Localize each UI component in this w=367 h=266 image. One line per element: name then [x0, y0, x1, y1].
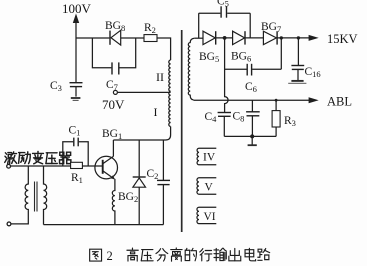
svg-text:I: I: [154, 105, 158, 119]
caption figure 2 (Chinese): [90, 249, 102, 261]
capacitor C5: [221, 6, 226, 17]
junction dot at BG7 output: [280, 36, 283, 39]
wire BG7 output down to C6: [280, 38, 282, 69]
capacitor C2: [157, 140, 170, 225]
winding V: [197, 178, 216, 194]
capacitor C4: [218, 113, 231, 137]
junction dot at C16 branch: [297, 36, 300, 39]
svg-text:ABL: ABL: [327, 95, 352, 109]
svg-text:C5: C5: [217, 0, 229, 9]
svg-text:VI: VI: [204, 211, 216, 223]
capacitor C1 loop: [63, 138, 88, 166]
wire C5 loop top: [199, 12, 251, 14]
wire base rail: [11, 165, 71, 167]
ground below C8 node: [248, 136, 257, 145]
wire BG6 to BG7: [245, 37, 263, 39]
wire R2 to transformer primary top: [157, 38, 171, 60]
wire BG8 to R2: [121, 37, 144, 39]
capacitor C8: [246, 100, 260, 136]
capacitor C6: [247, 64, 251, 76]
arrow 15KV: [309, 35, 319, 41]
wire BG7 to 15KV arrow: [277, 37, 309, 39]
wire main top rail left: [76, 37, 109, 39]
driver transformer right winding: [44, 166, 47, 225]
wire 70V tap to primary: [118, 91, 171, 93]
svg-text:IV: IV: [203, 152, 216, 164]
wire secondary top to BG5: [194, 37, 203, 39]
driver transformer left winding: [11, 166, 28, 224]
svg-text:II: II: [156, 70, 164, 84]
diode BG6: [233, 31, 245, 44]
diode BG5: [203, 31, 216, 44]
svg-text:70V: 70V: [102, 97, 125, 112]
transformer core: [181, 30, 183, 232]
driver transformer core: [35, 182, 38, 212]
transformer secondary winding: [188, 38, 194, 100]
winding VI: [197, 207, 216, 223]
wire C7 snubber loop: [92, 38, 135, 68]
emitter choke: [112, 179, 115, 225]
wire C5 loop right leg: [249, 13, 251, 38]
junction dot BG5-BG6: [223, 36, 227, 40]
diode BG8: [110, 30, 121, 45]
wire emitter ground bus: [44, 224, 164, 226]
wire bottom rail C4-C8-R3: [224, 135, 276, 137]
svg-text:2: 2: [107, 249, 113, 263]
junction dot ground node: [250, 134, 254, 138]
svg-text:100V: 100V: [62, 1, 92, 16]
wire ABL rail: [193, 99, 309, 101]
wire 100V vertical to C3: [75, 38, 77, 82]
diode BG7: [263, 31, 277, 44]
terminal input bottom: [7, 222, 11, 226]
wire junction to C6 and C4 (with hop over ABL): [225, 38, 229, 112]
transistor BG1: [95, 140, 118, 179]
resistor R3: [272, 100, 280, 136]
transformer primary winding II + I: [169, 60, 171, 126]
wire R1 to base: [82, 165, 102, 167]
ground below C3: [71, 98, 81, 100]
junction dot R3 top: [275, 99, 278, 102]
wire C5 loop left leg: [198, 13, 200, 38]
wire collector rail: [113, 139, 165, 141]
capacitor C7: [112, 62, 119, 74]
svg-text:15KV: 15KV: [327, 32, 358, 46]
svg-text:V: V: [205, 182, 214, 194]
terminal 70V: [113, 90, 117, 94]
label driver transformer (Chinese): [5, 152, 17, 164]
diode BG2: [133, 140, 146, 225]
wire C6 row: [225, 68, 282, 70]
terminal input top: [7, 164, 11, 168]
100V arrow: [73, 14, 79, 39]
wire primary bottom to collector rail: [166, 127, 171, 141]
wire down to C16: [297, 38, 299, 65]
capacitor C3: [70, 83, 83, 97]
arrow ABL: [309, 97, 319, 103]
resistor R2: [144, 35, 157, 42]
ground below C16: [288, 81, 306, 84]
capacitor C16: [291, 66, 304, 81]
resistor R1: [71, 162, 83, 168]
winding IV: [197, 148, 216, 165]
wire BG5 to BG6: [216, 37, 233, 39]
